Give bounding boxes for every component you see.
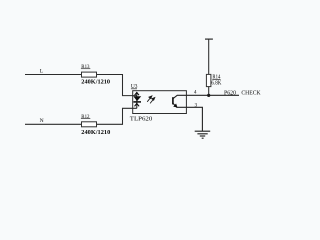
svg-text:N: N — [40, 118, 44, 124]
svg-text:R14: R14 — [212, 74, 220, 80]
svg-text:U3: U3 — [131, 84, 138, 90]
svg-text:240K/1210: 240K/1210 — [81, 129, 111, 136]
svg-text:L: L — [40, 68, 44, 74]
svg-text:3: 3 — [195, 102, 198, 108]
svg-text:TLP620: TLP620 — [130, 115, 153, 122]
svg-text:P620: P620 — [224, 89, 237, 96]
svg-text:R12: R12 — [81, 114, 89, 120]
svg-text:6.8K: 6.8K — [211, 80, 222, 86]
svg-text:R13: R13 — [81, 64, 89, 70]
svg-text:4: 4 — [194, 90, 197, 96]
svg-text:240K/1210: 240K/1210 — [81, 78, 110, 85]
svg-text:CHECK: CHECK — [241, 89, 260, 96]
